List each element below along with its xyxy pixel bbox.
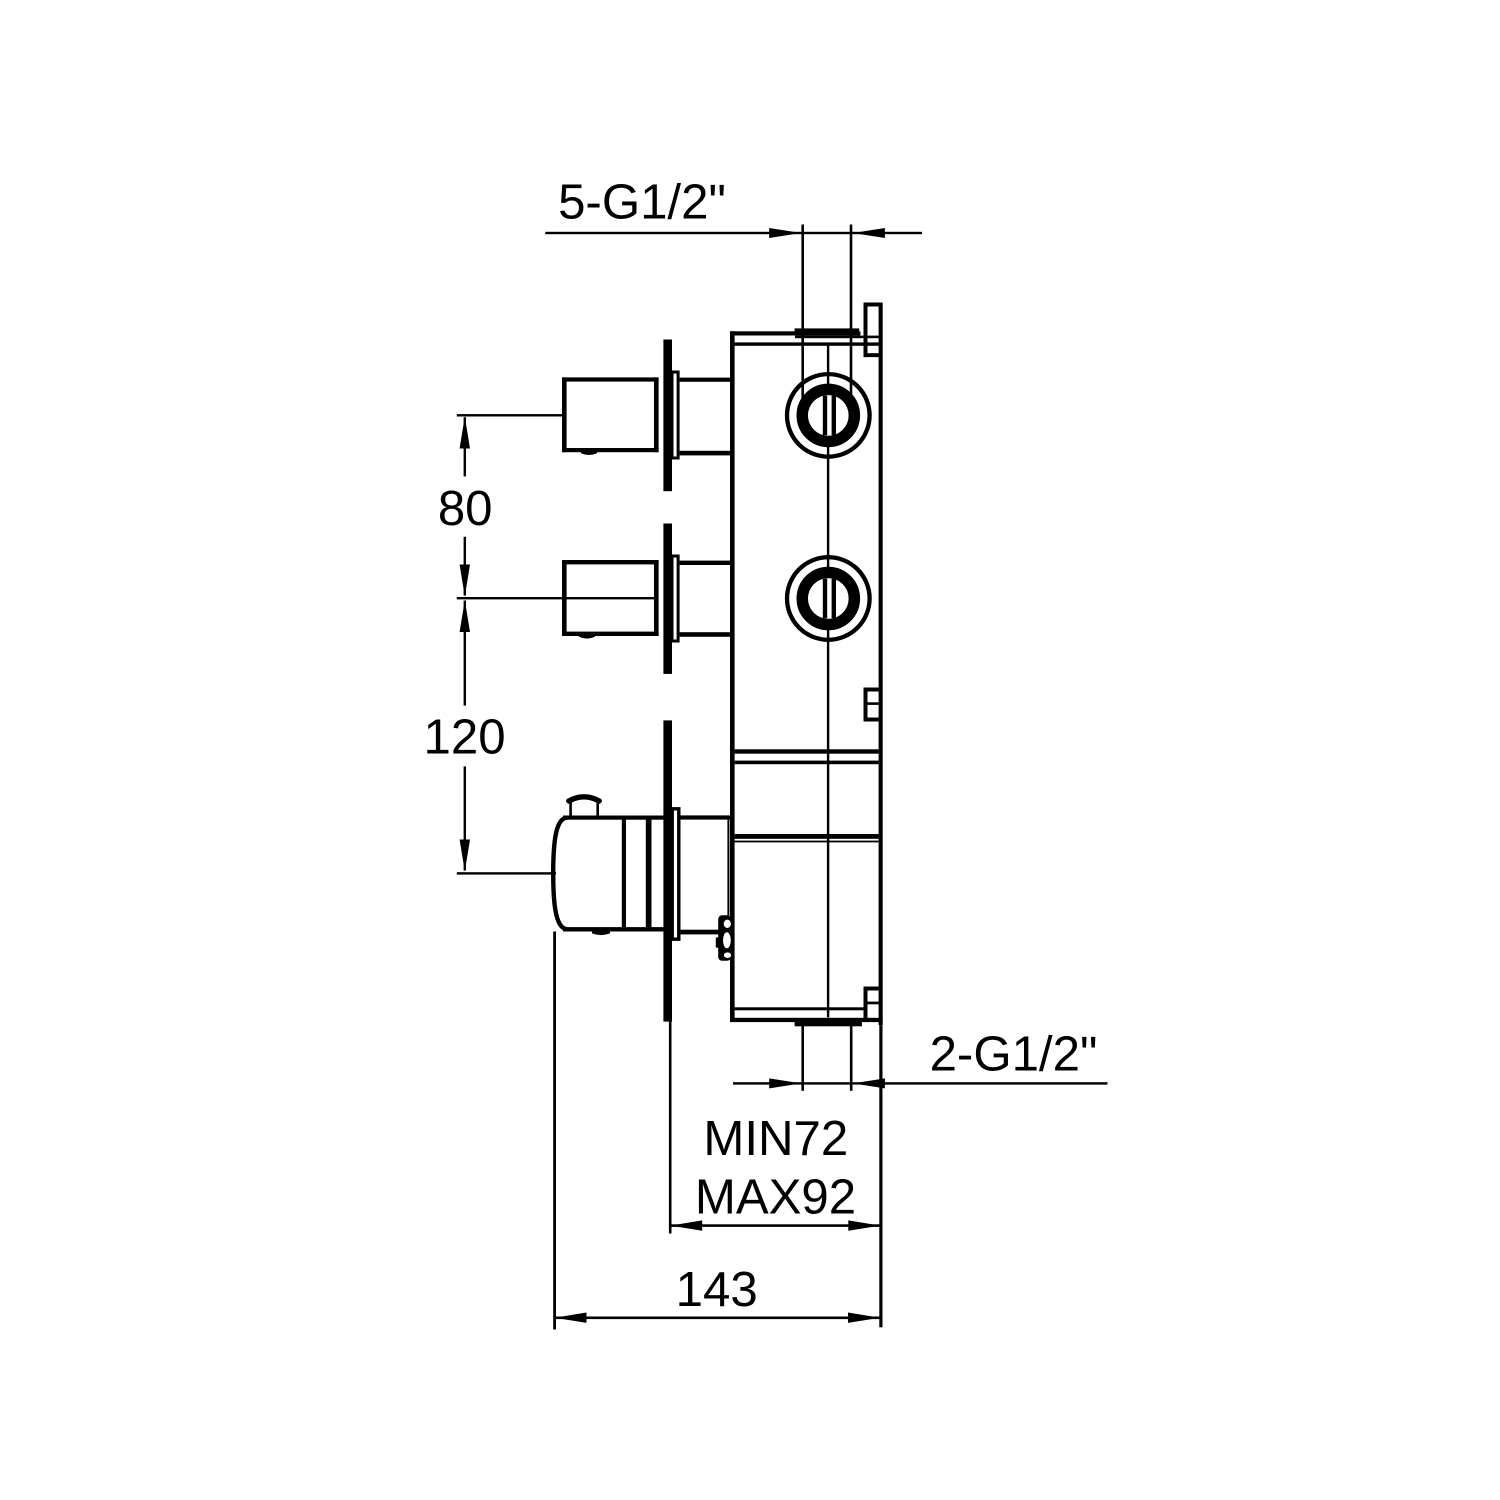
middle pipe stub right edge [654, 560, 659, 636]
top stub trim ring [672, 372, 678, 458]
body bottom port boss [795, 1022, 862, 1027]
cartridge button sides [569, 799, 572, 816]
middle pipe stub left edge [562, 560, 567, 636]
middle pipe stub bottom edge [562, 632, 659, 636]
top pipe stub top edge [562, 377, 659, 381]
body mid line 4 [735, 841, 879, 843]
body mid line 1 [735, 749, 879, 753]
middle pipe stub tick [579, 634, 595, 639]
top pipe stub tick [581, 450, 597, 455]
cartridge sleeve end line [727, 820, 729, 916]
dim line 143 [554, 1317, 881, 1320]
body top inner line 2 [735, 342, 879, 345]
top pipe stub bottom edge [562, 448, 659, 452]
extension line top left port [801, 225, 804, 400]
middle stub trim ring [672, 556, 678, 641]
body bottom edge [730, 1018, 883, 1022]
body mid line 2 [735, 761, 879, 765]
cartridge handle left face [553, 818, 567, 930]
extension line 143 left [553, 932, 556, 1330]
retaining clip [718, 915, 731, 961]
dim 80 vertical line [464, 417, 466, 476]
top pipe behind plate bottom line [680, 451, 731, 456]
dim 80 extension line at stub1 axis [457, 414, 562, 416]
middle pipe stub top edge [562, 560, 659, 564]
top pipe stub right edge [654, 377, 659, 452]
svg-text:2-G1/2": 2-G1/2" [930, 1027, 1098, 1082]
body right edge extension down to 143 dim [879, 1025, 882, 1327]
cartridge divider line 1 [622, 816, 626, 932]
cartridge button cap [569, 797, 599, 801]
wall plate segment 3 [663, 720, 672, 1021]
extension line MIN/MAX left [669, 1022, 672, 1234]
port circle 1 slot bars [823, 396, 827, 436]
svg-text:120: 120 [424, 710, 506, 765]
dim line MIN/MAX [670, 1224, 881, 1227]
cartridge handle bottom edge [563, 927, 664, 931]
cartridge sleeve top line [681, 815, 731, 819]
body left edge [730, 331, 735, 1022]
extension line top right port [850, 225, 853, 398]
svg-text:MAX92: MAX92 [695, 1169, 856, 1224]
body top edge [730, 331, 860, 335]
body mid line 3 [735, 834, 879, 839]
port circle 1 thread ring [802, 389, 854, 441]
port circle 2 slot bars [823, 579, 827, 619]
dim 120 vertical line [464, 601, 466, 706]
port circle 1 bore [808, 395, 849, 436]
dimension line 5-G1/2 [545, 232, 922, 234]
middle pipe behind plate top line [680, 561, 731, 565]
body top port boss [795, 328, 860, 334]
svg-text:143: 143 [676, 1262, 758, 1317]
wall plate segment 1 [663, 340, 672, 492]
centerline of ports [827, 346, 829, 1018]
body top inner line 1 [795, 336, 879, 339]
mid right tab [864, 688, 868, 722]
extension line bottom port right [850, 1026, 853, 1091]
port circle 2 bore [808, 578, 849, 619]
top pipe behind plate top line [680, 378, 731, 382]
cartridge divider line 2 [646, 816, 652, 932]
cartridge sleeve bottom line [681, 930, 731, 935]
dimension line 2-G1/2 [733, 1082, 1108, 1084]
svg-text:5-G1/2": 5-G1/2" [558, 175, 726, 230]
port circle 1 outer [787, 374, 870, 457]
port circle 2 outer [787, 557, 870, 640]
svg-text:MIN72: MIN72 [703, 1111, 848, 1166]
dim 120 extension line at cartridge axis [457, 872, 556, 874]
body right edge [879, 303, 883, 1026]
top right bracket [864, 303, 868, 358]
svg-text:80: 80 [438, 481, 493, 536]
top pipe stub left edge [562, 377, 567, 452]
cartridge handle top edge [563, 816, 664, 820]
cartridge handle tick [592, 931, 610, 935]
middle pipe behind plate bottom line [680, 632, 731, 637]
extension line bottom port left [801, 1026, 804, 1091]
bottom right tab [864, 987, 868, 1020]
wall plate segment 2 [663, 524, 672, 674]
dim 80/120 axis line at stub2 [457, 597, 656, 599]
cartridge trim ring [672, 809, 679, 939]
body bottom inner line [735, 1007, 864, 1010]
port circle 2 thread ring [802, 573, 854, 625]
